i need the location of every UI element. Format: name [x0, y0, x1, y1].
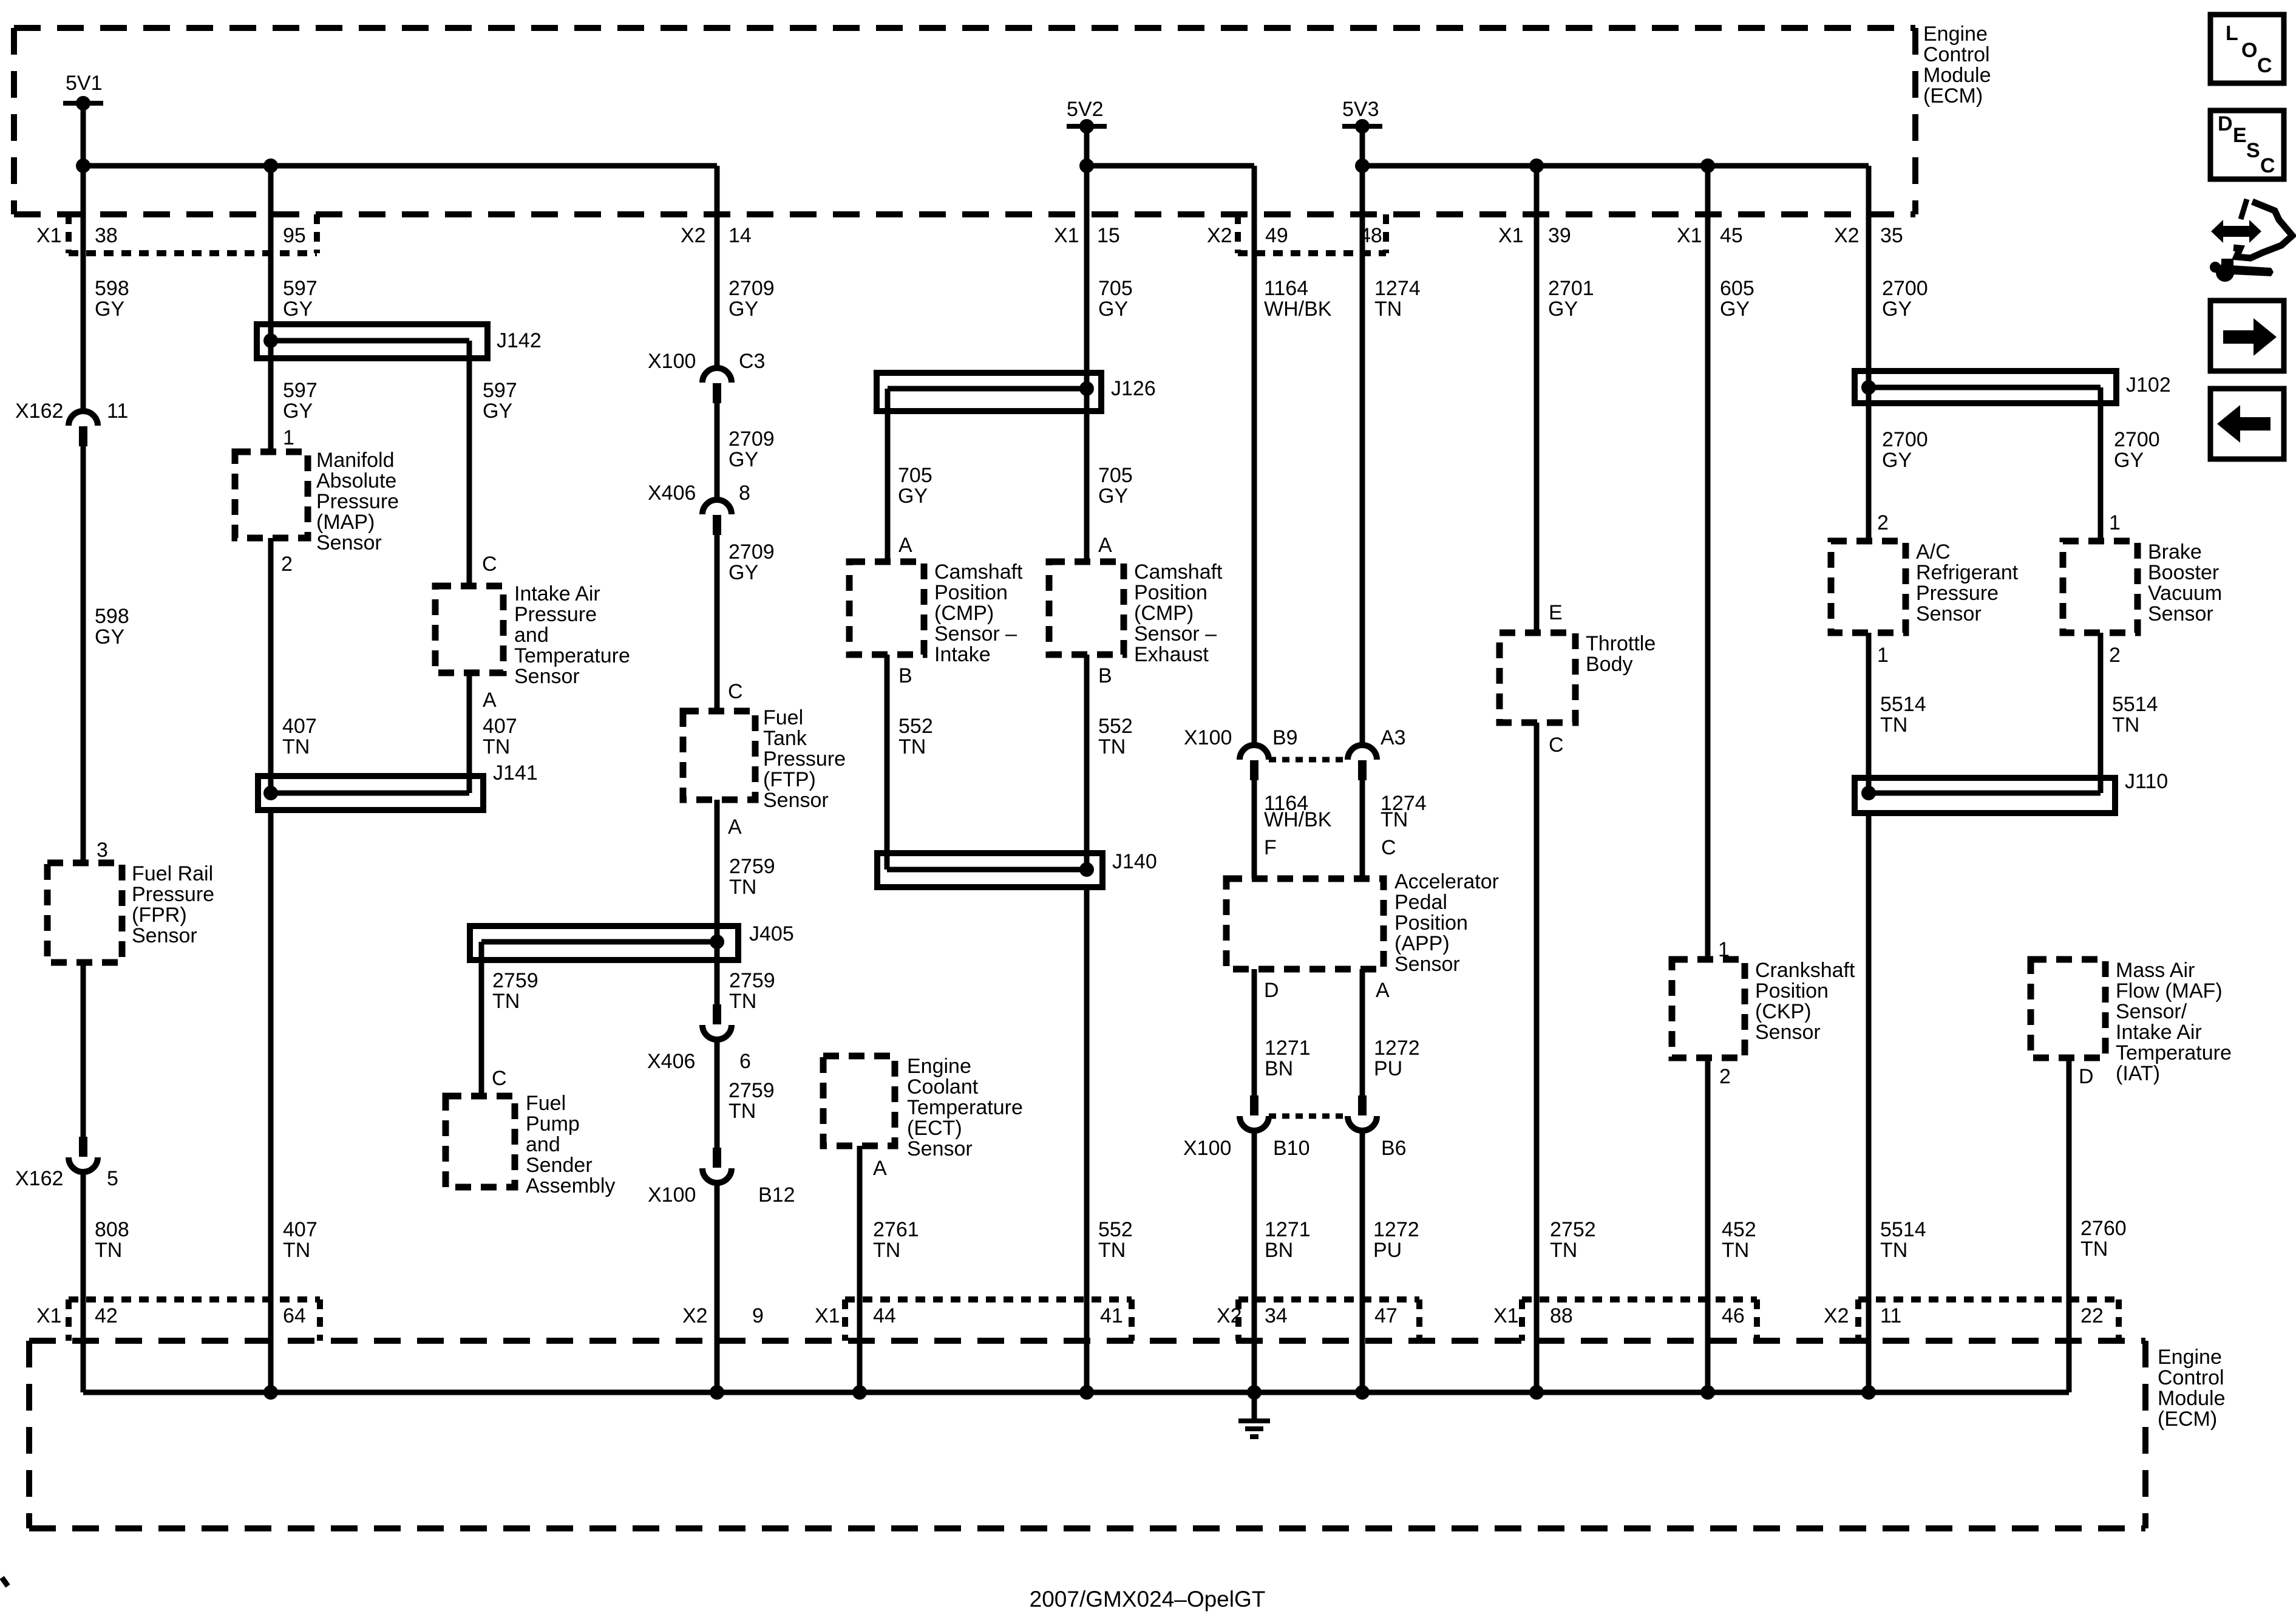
svg-text:C: C — [482, 553, 497, 576]
svg-text:15: 15 — [1097, 224, 1120, 247]
svg-text:Engine: Engine — [2158, 1346, 2222, 1369]
svg-text:2759: 2759 — [492, 969, 538, 992]
svg-text:2: 2 — [1719, 1065, 1731, 1088]
svg-text:Booster: Booster — [2148, 561, 2219, 584]
svg-text:5514: 5514 — [2112, 693, 2158, 716]
svg-text:407: 407 — [483, 715, 517, 738]
svg-text:GY: GY — [283, 298, 313, 321]
svg-text:2709: 2709 — [729, 427, 775, 451]
svg-text:GY: GY — [729, 298, 758, 321]
svg-text:TN: TN — [1098, 1239, 1126, 1262]
svg-text:Camshaft: Camshaft — [1134, 560, 1223, 584]
svg-text:O: O — [2241, 39, 2257, 62]
svg-text:J405: J405 — [749, 922, 794, 945]
svg-text:A3: A3 — [1381, 726, 1406, 749]
svg-text:C: C — [728, 680, 743, 703]
svg-text:407: 407 — [283, 1218, 318, 1241]
svg-text:8: 8 — [739, 482, 750, 505]
svg-text:TN: TN — [873, 1239, 900, 1262]
svg-text:Fuel Rail: Fuel Rail — [132, 862, 213, 885]
svg-text:TN: TN — [729, 990, 756, 1013]
svg-text:Sender: Sender — [526, 1154, 593, 1177]
svg-text:597: 597 — [283, 379, 318, 402]
svg-text:J102: J102 — [2126, 373, 2171, 397]
svg-text:B10: B10 — [1273, 1137, 1310, 1160]
svg-text:Pressure: Pressure — [763, 747, 846, 771]
svg-text:X2: X2 — [681, 224, 706, 247]
svg-text:GY: GY — [2114, 449, 2144, 472]
svg-text:GY: GY — [898, 485, 928, 508]
svg-text:TN: TN — [95, 1239, 122, 1262]
svg-text:TN: TN — [283, 1239, 310, 1262]
svg-text:2759: 2759 — [729, 855, 775, 878]
svg-text:2761: 2761 — [873, 1218, 919, 1241]
svg-text:TN: TN — [1374, 298, 1402, 321]
svg-text:J110: J110 — [2125, 770, 2168, 793]
svg-text:(ECM): (ECM) — [1923, 84, 1983, 107]
svg-text:6: 6 — [739, 1050, 751, 1073]
svg-text:705: 705 — [1098, 277, 1133, 300]
svg-text:(ECT): (ECT) — [907, 1117, 962, 1140]
svg-text:95: 95 — [283, 224, 306, 247]
svg-text:X1: X1 — [1493, 1304, 1519, 1327]
svg-text:X2: X2 — [1824, 1304, 1849, 1327]
svg-text:2759: 2759 — [729, 1079, 775, 1102]
svg-text:BN: BN — [1265, 1239, 1293, 1262]
svg-text:B6: B6 — [1381, 1137, 1407, 1160]
svg-text:407: 407 — [282, 715, 317, 738]
svg-text:TN: TN — [1550, 1239, 1577, 1262]
svg-text:Sensor: Sensor — [1916, 602, 1982, 625]
svg-text:J142: J142 — [497, 329, 542, 352]
svg-text:TN: TN — [492, 990, 520, 1013]
svg-text:X2: X2 — [1834, 224, 1860, 247]
svg-text:E: E — [1549, 601, 1563, 624]
svg-text:597: 597 — [483, 379, 517, 402]
svg-text:X100: X100 — [1184, 726, 1232, 749]
svg-text:TN: TN — [2112, 713, 2139, 737]
svg-text:Assembly: Assembly — [526, 1174, 615, 1197]
svg-text:X100: X100 — [648, 1183, 696, 1207]
svg-text:GY: GY — [1720, 298, 1750, 321]
svg-text:Fuel: Fuel — [526, 1092, 566, 1115]
svg-text:39: 39 — [1548, 224, 1571, 247]
svg-text:552: 552 — [1098, 1218, 1133, 1241]
svg-text:Brake: Brake — [2148, 540, 2202, 564]
svg-text:J141: J141 — [493, 761, 538, 785]
svg-text:TN: TN — [1098, 735, 1126, 758]
svg-text:Sensor/: Sensor/ — [2116, 1000, 2187, 1023]
svg-text:Tank: Tank — [763, 727, 807, 750]
svg-text:J140: J140 — [1112, 850, 1157, 873]
svg-text:14: 14 — [729, 224, 752, 247]
svg-text:Engine: Engine — [907, 1055, 971, 1078]
svg-text:X2: X2 — [1207, 224, 1232, 247]
svg-text:X162: X162 — [15, 1167, 63, 1190]
svg-text:TN: TN — [1880, 713, 1907, 737]
svg-text:5514: 5514 — [1880, 1218, 1926, 1241]
svg-text:TN: TN — [1722, 1239, 1749, 1262]
svg-text:C: C — [2257, 54, 2272, 77]
svg-text:2759: 2759 — [729, 969, 775, 992]
svg-text:49: 49 — [1265, 224, 1288, 247]
svg-text:35: 35 — [1880, 224, 1903, 247]
svg-text:GY: GY — [729, 448, 758, 471]
svg-text:2007/GMX024–OpelGT: 2007/GMX024–OpelGT — [1030, 1587, 1266, 1612]
svg-text:GY: GY — [1882, 449, 1912, 472]
svg-text:1271: 1271 — [1265, 1037, 1311, 1060]
svg-text:X406: X406 — [647, 1050, 695, 1073]
svg-text:Control: Control — [1923, 43, 1990, 66]
svg-text:GY: GY — [729, 561, 758, 584]
svg-text:1272: 1272 — [1373, 1218, 1419, 1241]
svg-text:TN: TN — [729, 1100, 756, 1123]
svg-text:Sensor –: Sensor – — [934, 622, 1017, 645]
svg-text:F: F — [1264, 836, 1277, 859]
svg-text:Refrigerant: Refrigerant — [1916, 561, 2019, 584]
svg-text:34: 34 — [1265, 1304, 1288, 1327]
svg-text:552: 552 — [898, 715, 933, 738]
svg-text:2700: 2700 — [2114, 428, 2160, 451]
svg-text:11: 11 — [107, 400, 128, 423]
svg-text:48: 48 — [1359, 224, 1382, 247]
svg-text:41: 41 — [1100, 1304, 1123, 1327]
svg-text:3: 3 — [97, 839, 108, 862]
svg-text:1: 1 — [1718, 938, 1730, 961]
svg-text:A: A — [483, 689, 497, 712]
svg-text:Sensor: Sensor — [514, 665, 580, 688]
svg-text:46: 46 — [1722, 1304, 1745, 1327]
svg-text:J126: J126 — [1111, 377, 1156, 400]
svg-text:705: 705 — [898, 464, 932, 487]
svg-text:Sensor: Sensor — [763, 789, 829, 812]
svg-text:Body: Body — [1586, 653, 1633, 676]
svg-text:(CKP): (CKP) — [1755, 1000, 1812, 1023]
svg-text:X100: X100 — [648, 350, 696, 373]
svg-text:1274: 1274 — [1374, 277, 1421, 300]
svg-text:5V3: 5V3 — [1342, 98, 1379, 121]
svg-text:2709: 2709 — [729, 540, 775, 564]
svg-text:X1: X1 — [1498, 224, 1524, 247]
svg-text:(MAP): (MAP) — [316, 511, 375, 534]
svg-text:L: L — [2226, 22, 2238, 45]
svg-text:GY: GY — [1548, 298, 1578, 321]
svg-text:and: and — [514, 624, 549, 647]
svg-text:X2: X2 — [1217, 1304, 1242, 1327]
svg-text:Fuel: Fuel — [763, 706, 803, 729]
svg-text:42: 42 — [95, 1304, 118, 1327]
svg-text:X1: X1 — [815, 1304, 840, 1327]
svg-text:Pressure: Pressure — [132, 883, 214, 906]
svg-text:2700: 2700 — [1882, 277, 1928, 300]
svg-text:GY: GY — [283, 400, 313, 423]
svg-text:TN: TN — [282, 735, 310, 758]
svg-text:Pressure: Pressure — [1916, 582, 1999, 605]
svg-text:Sensor: Sensor — [1755, 1021, 1821, 1044]
svg-text:Flow (MAF): Flow (MAF) — [2116, 979, 2223, 1003]
svg-text:Intake Air: Intake Air — [514, 582, 600, 605]
svg-text:D: D — [2218, 112, 2233, 135]
svg-text:11: 11 — [1880, 1304, 1901, 1327]
svg-text:TN: TN — [2080, 1238, 2108, 1261]
svg-text:1: 1 — [283, 426, 294, 449]
svg-text:44: 44 — [873, 1304, 896, 1327]
svg-text:Crankshaft: Crankshaft — [1755, 959, 1855, 982]
svg-text:WH/BK: WH/BK — [1264, 808, 1332, 831]
svg-text:(FPR): (FPR) — [132, 904, 187, 927]
svg-text:Sensor: Sensor — [907, 1137, 973, 1160]
svg-text:Position: Position — [1134, 581, 1207, 604]
svg-text:Engine: Engine — [1923, 22, 1988, 46]
svg-text:GY: GY — [483, 400, 512, 423]
svg-text:A: A — [728, 816, 742, 839]
svg-text:2760: 2760 — [2080, 1217, 2127, 1240]
svg-text:Vacuum: Vacuum — [2148, 582, 2222, 605]
svg-text:605: 605 — [1720, 277, 1754, 300]
svg-text:Sensor: Sensor — [1394, 953, 1460, 976]
svg-text:2: 2 — [2109, 644, 2121, 667]
svg-text:TN: TN — [483, 735, 510, 758]
svg-text:D: D — [2079, 1065, 2094, 1088]
svg-text:C3: C3 — [739, 350, 765, 373]
svg-text:Sensor: Sensor — [2148, 602, 2213, 625]
svg-text:A: A — [898, 534, 912, 557]
svg-text:X1: X1 — [36, 224, 62, 247]
svg-text:Pressure: Pressure — [514, 603, 597, 626]
svg-text:GY: GY — [1882, 298, 1912, 321]
svg-text:45: 45 — [1720, 224, 1743, 247]
svg-text:X1: X1 — [1054, 224, 1079, 247]
svg-text:Sensor: Sensor — [132, 924, 197, 947]
svg-text:GY: GY — [95, 298, 124, 321]
svg-text:X162: X162 — [15, 400, 63, 423]
svg-text:(IAT): (IAT) — [2116, 1062, 2160, 1085]
svg-text:TN: TN — [1880, 1239, 1907, 1262]
svg-text:Absolute: Absolute — [316, 469, 396, 492]
svg-text:(FTP): (FTP) — [763, 768, 816, 791]
svg-text:808: 808 — [95, 1218, 129, 1241]
svg-text:Manifold: Manifold — [316, 449, 395, 472]
svg-text:5V2: 5V2 — [1067, 98, 1104, 121]
svg-text:Accelerator: Accelerator — [1394, 870, 1499, 893]
svg-text:A: A — [1376, 979, 1390, 1002]
svg-text:598: 598 — [95, 605, 129, 628]
svg-text:Sensor: Sensor — [316, 531, 382, 554]
svg-text:Temperature: Temperature — [907, 1096, 1023, 1119]
svg-text:552: 552 — [1098, 715, 1133, 738]
svg-text:and: and — [526, 1133, 560, 1156]
svg-text:Mass Air: Mass Air — [2116, 959, 2195, 982]
svg-text:PU: PU — [1374, 1057, 1402, 1080]
svg-text:WH/BK: WH/BK — [1264, 298, 1332, 321]
svg-text:C: C — [2260, 154, 2275, 177]
svg-text:Pump: Pump — [526, 1112, 580, 1136]
svg-text:Position: Position — [1394, 911, 1468, 935]
svg-text:5: 5 — [107, 1167, 118, 1190]
svg-text:2701: 2701 — [1548, 277, 1594, 300]
svg-text:2752: 2752 — [1550, 1218, 1596, 1241]
svg-text:1: 1 — [2109, 511, 2121, 534]
svg-text:Position: Position — [934, 581, 1008, 604]
svg-text:5514: 5514 — [1880, 693, 1926, 716]
svg-text:Temperature: Temperature — [514, 644, 630, 667]
svg-text:A: A — [1098, 534, 1112, 557]
svg-text:X1: X1 — [1677, 224, 1702, 247]
svg-text:2: 2 — [1877, 511, 1889, 534]
svg-text:B9: B9 — [1272, 726, 1298, 749]
svg-text:Exhaust: Exhaust — [1134, 643, 1209, 666]
svg-text:Camshaft: Camshaft — [934, 560, 1023, 584]
svg-text:B12: B12 — [758, 1183, 795, 1207]
svg-text:Module: Module — [2158, 1387, 2226, 1410]
svg-text:Position: Position — [1755, 979, 1829, 1003]
svg-text:452: 452 — [1722, 1218, 1756, 1241]
svg-text:Module: Module — [1923, 64, 1991, 87]
svg-text:BN: BN — [1265, 1057, 1293, 1080]
svg-text:2: 2 — [281, 553, 293, 576]
svg-text:88: 88 — [1550, 1304, 1573, 1327]
svg-text:1272: 1272 — [1374, 1037, 1420, 1060]
svg-text:(APP): (APP) — [1394, 932, 1450, 955]
svg-text:705: 705 — [1098, 464, 1133, 487]
svg-text:Temperature: Temperature — [2116, 1041, 2232, 1064]
svg-text:TN: TN — [898, 735, 926, 758]
svg-text:(ECM): (ECM) — [2158, 1408, 2217, 1431]
svg-text:A/C: A/C — [1916, 540, 1951, 564]
svg-text:(CMP): (CMP) — [934, 602, 994, 625]
svg-text:9: 9 — [752, 1304, 764, 1327]
svg-text:C: C — [1549, 734, 1564, 757]
svg-text:2700: 2700 — [1882, 428, 1928, 451]
svg-text:Intake Air: Intake Air — [2116, 1021, 2202, 1044]
svg-text:GY: GY — [1098, 485, 1128, 508]
svg-text:X1: X1 — [36, 1304, 62, 1327]
svg-text:Intake: Intake — [934, 643, 991, 666]
svg-text:Pedal: Pedal — [1394, 891, 1447, 914]
svg-text:1271: 1271 — [1265, 1218, 1311, 1241]
svg-text:Control: Control — [2158, 1366, 2224, 1389]
svg-text:597: 597 — [283, 277, 318, 300]
svg-text:B: B — [1098, 664, 1112, 687]
svg-text:5V1: 5V1 — [66, 72, 103, 95]
svg-text:598: 598 — [95, 277, 129, 300]
svg-text:Coolant: Coolant — [907, 1075, 979, 1098]
svg-text:X100: X100 — [1183, 1137, 1231, 1160]
svg-text:GY: GY — [1098, 298, 1128, 321]
svg-text:2709: 2709 — [729, 277, 775, 300]
svg-text:A: A — [873, 1157, 887, 1180]
svg-text:TN: TN — [1381, 808, 1408, 831]
svg-text:64: 64 — [283, 1304, 306, 1327]
svg-text:38: 38 — [95, 224, 118, 247]
svg-text:C: C — [1381, 836, 1396, 859]
svg-text:B: B — [898, 664, 912, 687]
svg-text:(CMP): (CMP) — [1134, 602, 1194, 625]
svg-text:TN: TN — [729, 876, 756, 899]
svg-text:E: E — [2233, 124, 2247, 147]
svg-text:1164: 1164 — [1264, 277, 1308, 300]
svg-text:C: C — [492, 1067, 507, 1090]
svg-text:47: 47 — [1374, 1304, 1398, 1327]
svg-text:PU: PU — [1373, 1239, 1402, 1262]
svg-text:S: S — [2246, 139, 2260, 162]
svg-text:Sensor –: Sensor – — [1134, 622, 1217, 645]
svg-text:1: 1 — [1877, 644, 1889, 667]
svg-text:X2: X2 — [682, 1304, 708, 1327]
svg-text:Pressure: Pressure — [316, 490, 399, 513]
svg-text:GY: GY — [95, 625, 124, 649]
svg-text:X406: X406 — [648, 482, 696, 505]
svg-text:D: D — [1264, 979, 1279, 1002]
svg-text:22: 22 — [2080, 1304, 2104, 1327]
svg-text:Throttle: Throttle — [1586, 632, 1656, 655]
